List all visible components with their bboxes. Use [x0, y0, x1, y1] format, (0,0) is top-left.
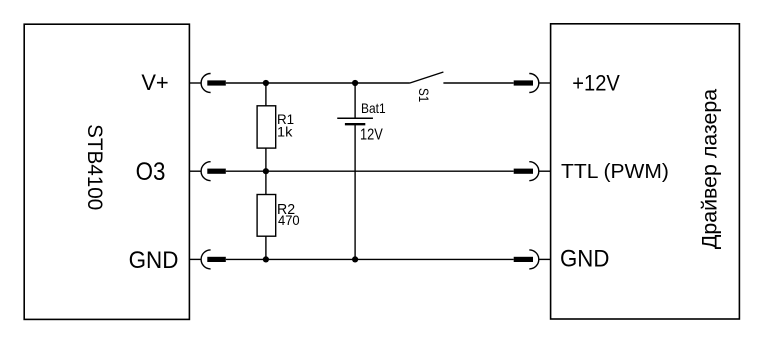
connector socket arc (GND right) [529, 250, 539, 269]
svg-text:GND: GND [129, 246, 179, 273]
label R2 [277, 201, 295, 218]
wire V+ to switch S1 [226, 82, 410, 84]
battery Bat1 negative plate [345, 123, 365, 125]
connector socket arc (V+ left) [201, 74, 210, 93]
pin label GND (right) [560, 245, 609, 272]
wire R2 bottom lead [265, 236, 267, 259]
svg-text:12V: 12V [360, 125, 383, 142]
connector pin bar (GND right) [514, 257, 533, 262]
connector socket arc (GND left) [201, 250, 210, 269]
pin label V+ [141, 70, 168, 95]
svg-text:+12V: +12V [572, 70, 620, 95]
pin label TTL (PWM) [561, 161, 669, 183]
wire R1 top lead [265, 83, 267, 106]
resistor R2 [257, 195, 276, 237]
wire battery top lead [354, 83, 356, 118]
pin label O3 [136, 158, 166, 187]
label 12V [360, 125, 383, 142]
IC box STB4100 [24, 24, 189, 319]
connector socket arc (O3 left) [201, 162, 210, 181]
wire R2 top lead [265, 171, 267, 194]
wire O3 stub from left box [189, 170, 201, 172]
wire R1 bottom lead [265, 148, 267, 171]
resistor R1 [257, 106, 276, 148]
label Драйвер лазера [699, 89, 722, 249]
wire V+ stub from left box [189, 82, 201, 84]
junction V+ / Bat1 [352, 80, 358, 86]
svg-text:Bat1: Bat1 [361, 100, 386, 116]
IC box Драйвер лазера [551, 24, 740, 319]
battery Bat1 positive plate [337, 117, 373, 119]
label S1 [416, 88, 431, 102]
junction V+ / R1 [263, 80, 269, 86]
label 470 [278, 212, 300, 228]
wire +12V stub to right box [539, 82, 551, 84]
svg-text:O3: O3 [136, 158, 166, 187]
label 1k [277, 125, 293, 141]
label STB4100 [83, 124, 106, 210]
pin label +12V [572, 70, 620, 95]
junction GND / Bat1 [352, 256, 358, 262]
wire GND stub to right box [539, 258, 551, 260]
svg-text:1k: 1k [277, 125, 293, 141]
wire switch to +12V connector [443, 82, 513, 84]
junction GND / R2 [263, 256, 269, 262]
connector socket arc (+12V right) [529, 74, 539, 93]
svg-text:S1: S1 [416, 88, 431, 102]
svg-text:STB4100: STB4100 [83, 124, 106, 210]
wire TTL stub to right box [539, 170, 551, 172]
connector pin bar (TTL right) [514, 169, 533, 174]
svg-text:470: 470 [278, 212, 300, 228]
connector pin bar (V+ left) [207, 80, 226, 85]
pin label GND (left) [129, 246, 179, 273]
label Bat1 [361, 100, 386, 116]
switch S1 blade [410, 72, 444, 83]
svg-text:V+: V+ [141, 70, 168, 95]
svg-text:Драйвер лазера: Драйвер лазера [699, 89, 722, 249]
wire O3 to TTL connector [226, 170, 514, 172]
connector pin bar (O3 left) [207, 169, 226, 174]
wire battery bottom lead [354, 124, 356, 259]
wire GND stub from left box [189, 258, 201, 260]
svg-text:GND: GND [560, 245, 609, 272]
svg-text:TTL (PWM): TTL (PWM) [561, 161, 669, 183]
connector pin bar (+12V right) [514, 80, 533, 85]
junction O3 / R1 R2 [263, 168, 269, 174]
wire GND to GND connector [226, 258, 514, 260]
connector pin bar (GND left) [207, 257, 226, 262]
connector socket arc (TTL right) [529, 162, 539, 181]
label R1 [277, 112, 294, 127]
